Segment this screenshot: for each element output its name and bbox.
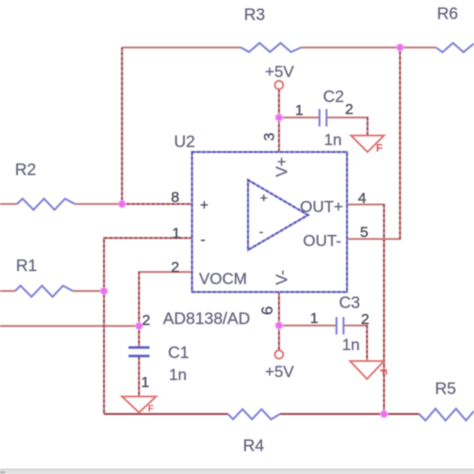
svg-text:3: 3: [261, 133, 278, 141]
svg-text:2: 2: [345, 101, 353, 118]
svg-text:V+: V+: [274, 157, 291, 177]
svg-text:R1: R1: [16, 257, 37, 275]
svg-text:1n: 1n: [169, 367, 187, 384]
svg-text:+: +: [260, 190, 268, 205]
svg-text:2: 2: [171, 259, 179, 276]
svg-text:AD8138/AD: AD8138/AD: [163, 310, 250, 328]
svg-text:V-: V-: [274, 270, 291, 285]
svg-text:R5: R5: [435, 380, 456, 398]
svg-text:5: 5: [360, 224, 368, 241]
svg-text:C1: C1: [168, 344, 189, 362]
svg-text:F: F: [376, 143, 383, 155]
svg-text:1: 1: [141, 374, 149, 391]
svg-text:1: 1: [172, 225, 180, 242]
svg-text:1n: 1n: [324, 132, 342, 149]
svg-text:+5V: +5V: [265, 64, 294, 81]
svg-text:-: -: [259, 224, 263, 239]
svg-text:C2: C2: [323, 88, 344, 106]
svg-text:4: 4: [358, 190, 366, 207]
svg-text:R2: R2: [15, 161, 36, 179]
svg-text:2: 2: [142, 312, 150, 329]
svg-text:OUT-: OUT-: [303, 233, 341, 250]
svg-text:+5V: +5V: [265, 364, 294, 381]
svg-text:C3: C3: [339, 294, 360, 312]
svg-text:2: 2: [361, 311, 369, 328]
svg-text:VOCM: VOCM: [199, 271, 247, 288]
svg-text:R3: R3: [244, 6, 265, 24]
svg-text:8: 8: [171, 189, 179, 206]
svg-text:U2: U2: [174, 133, 195, 151]
svg-text:F: F: [148, 404, 154, 414]
svg-text:1: 1: [295, 102, 303, 119]
svg-text:+: +: [200, 198, 208, 214]
svg-text:OUT+: OUT+: [300, 199, 343, 216]
svg-text:1: 1: [310, 310, 318, 327]
svg-text:R4: R4: [243, 437, 264, 455]
svg-text:1n: 1n: [342, 337, 360, 354]
svg-text:6: 6: [260, 306, 277, 315]
svg-text:-: -: [201, 233, 206, 249]
svg-text:F: F: [377, 369, 388, 375]
svg-text:R6: R6: [437, 5, 458, 23]
